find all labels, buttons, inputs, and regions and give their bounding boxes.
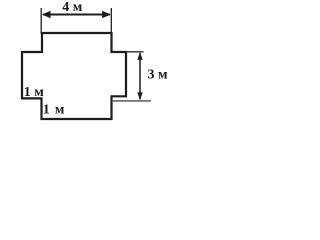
right dimension top arrowhead: [137, 52, 142, 60]
svg-text:3 м: 3 м: [148, 68, 169, 83]
right dimension bottom arrowhead: [137, 92, 142, 100]
right extension tick of top dimension: [110, 8, 112, 34]
left extension tick of top dimension: [40, 8, 42, 34]
cross-shaped polygon outline: [22, 33, 126, 119]
bottom extension tick of right dimension: [112, 100, 152, 102]
top extension tick of right dimension: [126, 51, 144, 53]
top dimension right arrowhead: [102, 11, 111, 18]
svg-text:1 м: 1 м: [43, 102, 65, 117]
svg-text:4 м: 4 м: [62, 0, 83, 15]
svg-text:1 м: 1 м: [24, 85, 45, 100]
top dimension left arrowhead: [42, 11, 51, 18]
top dimension arrow shaft: [43, 14, 110, 16]
right dimension arrow shaft: [139, 53, 141, 100]
